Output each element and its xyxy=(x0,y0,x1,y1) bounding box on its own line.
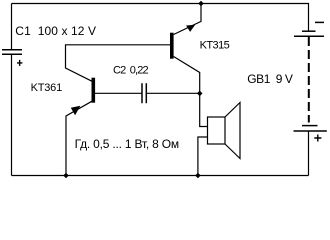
battery GB1 cell 1 short plate xyxy=(302,30,316,32)
transistor Q1 KT361 bar xyxy=(92,78,96,103)
svg-text:C1 100 x 12 V: C1 100 x 12 V xyxy=(15,24,96,38)
KT315 collector wire xyxy=(174,57,208,127)
KT315 emitter wire xyxy=(174,4,201,35)
transistor Q2 KT315 bar xyxy=(170,33,174,59)
wire bottom rail xyxy=(12,175,309,177)
battery GB1 cell 1 long plate xyxy=(294,35,324,37)
speaker BA1 body xyxy=(208,117,226,144)
KT361 base wire xyxy=(95,92,142,94)
svg-text:KT315: KT315 xyxy=(200,39,230,51)
battery dashed link xyxy=(308,37,310,123)
node dot bottom speaker xyxy=(195,173,201,179)
battery minus sign xyxy=(315,21,324,23)
KT315 emitter arrow xyxy=(186,25,195,32)
svg-text:C2 0,22: C2 0,22 xyxy=(113,65,149,77)
battery GB1 cell 2 short plate xyxy=(302,125,318,127)
C2 wire to node A xyxy=(147,92,200,94)
battery plus sign xyxy=(314,135,321,142)
speaker cone xyxy=(225,103,240,159)
node dot bottom left xyxy=(63,173,69,179)
KT361 emitter arrow xyxy=(71,106,81,116)
wire left rail upper xyxy=(11,4,13,50)
node A dot xyxy=(197,91,203,97)
speaker lower lead wire xyxy=(198,137,208,176)
KT361 collector wire xyxy=(66,45,171,81)
capacitor C2 xyxy=(142,83,146,103)
wire top rail xyxy=(12,4,309,32)
KT361 emitter wire xyxy=(66,101,92,175)
capacitor C1 xyxy=(2,50,22,55)
node dot top rail xyxy=(198,1,204,7)
wire left rail lower xyxy=(11,55,13,176)
svg-text:KT361: KT361 xyxy=(31,82,62,94)
C1 plus sign xyxy=(17,60,22,66)
svg-text:GB1 9 V: GB1 9 V xyxy=(247,72,293,86)
wire right rail lower xyxy=(308,131,310,176)
svg-text:Гд. 0,5 ... 1 Вт, 8 Ом: Гд. 0,5 ... 1 Вт, 8 Ом xyxy=(75,137,179,151)
battery GB1 cell 2 long plate xyxy=(294,130,327,132)
